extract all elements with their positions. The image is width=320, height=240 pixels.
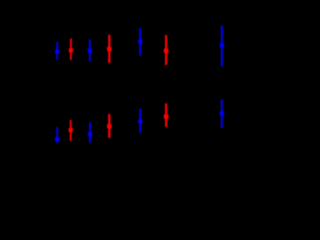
errorbar top-2 red bar xyxy=(70,38,72,60)
marker bottom-7 blue xyxy=(220,111,224,115)
errorbar top-5 blue bar xyxy=(139,28,141,56)
errorbar top-7 blue bar xyxy=(221,26,223,67)
errorbar bottom-6 red thick bar xyxy=(165,103,167,127)
marker bottom-6 red xyxy=(164,114,169,119)
marker top-2 red xyxy=(69,48,73,52)
errorbar top-4 red thick bar xyxy=(108,35,110,63)
errorbar bottom-4 red thick bar xyxy=(108,114,110,138)
marker top-5 blue xyxy=(138,39,142,43)
marker bottom-4 red xyxy=(107,124,112,129)
marker bottom-5 blue xyxy=(138,119,142,123)
errorbar top-3 blue bar xyxy=(89,39,91,62)
marker top-3 blue xyxy=(88,48,92,52)
marker top-7 blue xyxy=(220,43,224,47)
errorbar bottom-5 blue bar xyxy=(139,109,141,134)
marker bottom-1 blue xyxy=(55,137,59,141)
errorbar top-6 red thick bar xyxy=(165,35,167,65)
marker bottom-3 blue xyxy=(88,132,92,136)
errorbar bottom-7 blue bar xyxy=(221,100,223,129)
marker top-6 red xyxy=(164,49,169,54)
marker bottom-2 red xyxy=(69,128,73,132)
errorbar top-1 blue bar xyxy=(56,42,58,59)
errorbar bottom-2 red bar xyxy=(70,120,72,141)
marker top-1 blue xyxy=(55,49,59,53)
errorbar bottom-3 blue bar xyxy=(89,122,91,143)
marker top-4 red xyxy=(107,47,112,52)
errorbar bottom-1 blue bar xyxy=(56,127,58,143)
